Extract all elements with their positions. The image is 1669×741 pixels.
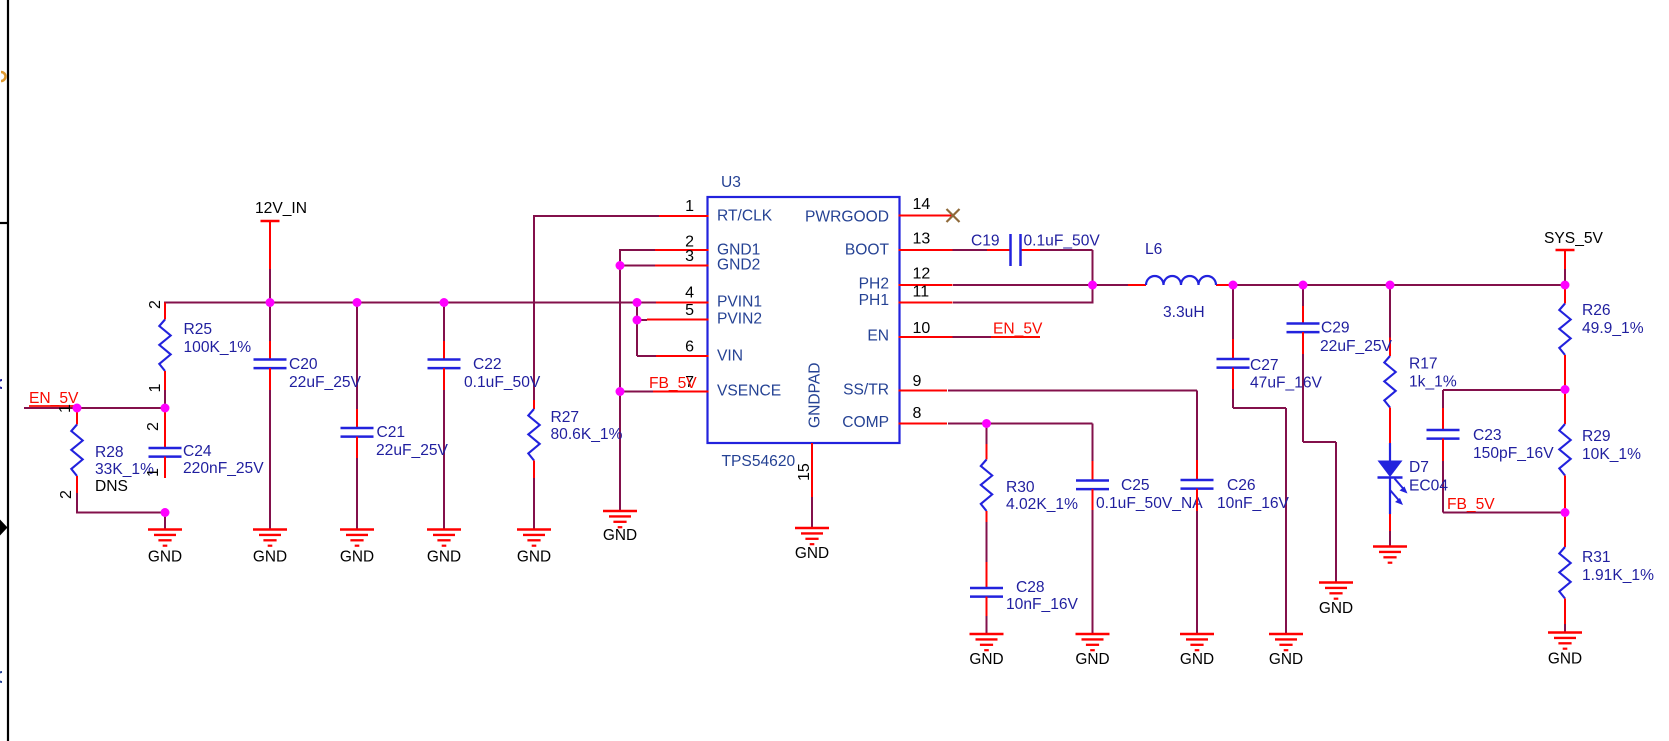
wire C22 branch [443,303,445,531]
svg-text:GND: GND [603,527,637,544]
ground symbol 4 at x=444 [427,530,461,566]
pin 6 VIN [656,339,743,365]
svg-text:47uF_16V: 47uF_16V [1250,375,1323,392]
wire C21 branch [356,303,358,531]
diode D7 EC04 LED [1378,443,1449,531]
pin 1 RT/CLK [659,198,773,225]
net label FB_5V at R31 [1447,496,1495,513]
svg-text:22uF_25V: 22uF_25V [1320,338,1393,355]
ground symbol 2 at x=270 [253,530,287,566]
capacitor C27 47uF_16V [1217,339,1323,392]
svg-text:C22: C22 [473,356,502,373]
capacitor C21 22uF_25V [341,409,449,459]
svg-text:5: 5 [685,302,694,319]
svg-text:0.1uF_50V: 0.1uF_50V [464,374,541,391]
svg-text:GND: GND [1269,651,1303,668]
svg-text:10nF_16V: 10nF_16V [1006,596,1079,613]
svg-text:GND: GND [253,549,287,566]
capacitor C25 0.1uF_50V_NA [1076,461,1203,512]
pin 3 GND2 [655,248,760,274]
wire PVIN1/PVIN2/VIN join [637,303,656,357]
svg-text:U3: U3 [721,174,741,191]
svg-text:C23: C23 [1473,427,1502,444]
wire C29 branch [1303,285,1336,583]
ground symbol 10 at x=1197 [1180,634,1214,668]
svg-text:D7: D7 [1409,459,1429,476]
junction node at (1092.5,285) [1088,281,1097,290]
inductor L6 3.3uH [1128,241,1232,321]
resistor R31 1.91K_1% [1559,513,1654,625]
svg-text:DNS: DNS [95,478,128,495]
svg-text:C26: C26 [1227,477,1256,494]
U3 reference label [721,174,741,191]
no-connect X on pin 14 [947,209,960,222]
wire SYS_5V stub [1564,268,1566,285]
pin 5 PVIN2 [647,302,762,328]
junction node at (620,265.5) [616,261,625,270]
net label EN_5V left [29,390,79,407]
pin 7 VSENCE [653,374,781,400]
junction node at (1233,285) [1229,281,1238,290]
svg-text:GND: GND [1075,651,1109,668]
svg-text:GND: GND [148,549,182,566]
svg-text:PH2: PH2 [859,276,889,293]
wire PH2 [953,284,1093,286]
wire C25 to GND [1092,510,1094,635]
junction node at (1565,389.5) [1561,385,1570,394]
svg-text:R28: R28 [95,444,124,461]
svg-text:GND: GND [795,545,829,562]
svg-text:0.1uF_50V: 0.1uF_50V [1024,233,1101,250]
svg-text:1: 1 [57,404,74,413]
svg-text:C24: C24 [183,443,212,460]
wire C23 bottom loop FB_5V [1443,461,1565,513]
svg-text:SS/TR: SS/TR [843,382,889,399]
svg-text:EN: EN [867,328,889,345]
ground symbol 1 at x=165 [148,530,182,566]
junction node at (444,302.5) [440,298,449,307]
junction node at (620,391.5) [616,387,625,396]
resistor R26 49.9_1% [1559,285,1643,385]
pin 14 PWRGOOD [805,196,953,226]
svg-text:2: 2 [145,422,162,431]
power SYS_5V [1544,230,1604,269]
junction node at (986.5,423.5) [982,419,991,428]
ground symbol 5 at x=534 [517,530,551,566]
wire R25 bottom to EN_5V node [164,389,166,409]
svg-text:1.91K_1%: 1.91K_1% [1582,567,1654,584]
R28 DNS label [95,478,128,495]
svg-text:R26: R26 [1582,302,1611,319]
svg-text:GND: GND [1180,651,1214,668]
pin 4 PVIN1 [656,285,762,311]
svg-text:80.6K_1%: 80.6K_1% [551,426,623,443]
svg-text:GND: GND [340,549,374,566]
capacitor C19 0.1uF_50V horizontal [971,233,1100,267]
net label EN_5V at pin 10 [991,321,1043,338]
svg-text:9: 9 [913,373,922,390]
svg-text:GNDPAD: GNDPAD [807,362,824,428]
R28 pin numbers [57,404,75,499]
wire 12V_IN rail [164,302,656,304]
svg-text:2: 2 [58,490,75,499]
junction node at (1390,285) [1386,281,1395,290]
svg-text:C20: C20 [289,356,318,373]
svg-text:PH1: PH1 [859,292,889,309]
junction node at (165,408) [161,404,170,413]
pin 2 GND1 [655,234,760,259]
wire R17 top stub [1389,285,1391,339]
resistor R25 100K_1% [159,303,251,391]
svg-text:GND: GND [427,549,461,566]
svg-text:12: 12 [913,266,931,283]
svg-text:4: 4 [685,285,694,302]
svg-text:TPS54620: TPS54620 [722,453,796,470]
svg-text:C21: C21 [377,424,406,441]
pin 8 COMP [842,405,947,431]
svg-text:13: 13 [913,231,931,248]
resistor R28 33K_1% DNS [71,408,154,493]
net label FB_5V at pin 7 [649,375,708,392]
wire PH node to L6 [1093,284,1129,286]
svg-text:R29: R29 [1582,428,1611,445]
svg-text:1: 1 [145,468,162,477]
svg-text:3: 3 [685,248,694,265]
wire EN net stub [952,336,1040,338]
svg-text:2: 2 [147,300,164,309]
capacitor C23 150pF_16V [1427,408,1555,462]
power 12V_IN [255,200,307,269]
svg-text:C19: C19 [971,233,1000,250]
op-amp U3 TPS54620 body [708,197,900,443]
svg-text:RT/CLK: RT/CLK [717,208,773,225]
svg-text:R25: R25 [184,321,213,338]
svg-text:8: 8 [913,405,922,422]
svg-text:3.3uH: 3.3uH [1163,304,1205,321]
svg-text:11: 11 [913,284,930,301]
svg-text:PWRGOOD: PWRGOOD [805,209,889,226]
ground symbol 14 at x=1565 [1548,633,1582,668]
wire C28 to GND [986,616,988,635]
wire R30 to C28 [986,522,988,563]
svg-text:L6: L6 [1145,241,1162,258]
svg-text:C28: C28 [1016,579,1045,596]
svg-text:220nF_25V: 220nF_25V [183,460,264,477]
wire SS/TR to C26 [948,391,1197,462]
svg-text:1: 1 [147,384,164,393]
wire BOOT to C19 [952,250,1093,303]
wire D7 to GND [1389,530,1391,547]
svg-text:R30: R30 [1006,479,1035,496]
ground symbol 6 at x=620 [603,511,637,544]
svg-text:GND: GND [969,651,1003,668]
U3 value TPS54620 [722,453,796,470]
svg-text:1k_1%: 1k_1% [1409,374,1457,391]
junction node at (77,408) [73,404,82,413]
wire C20 branch [269,268,271,530]
svg-text:10nF_16V: 10nF_16V [1217,495,1290,512]
wire GND1/GND2/VSENCE ground net [620,249,655,512]
svg-text:22uF_25V: 22uF_25V [289,374,362,391]
wire R26 bottom [1564,384,1566,390]
svg-text:4.02K_1%: 4.02K_1% [1006,496,1078,513]
svg-text:12V_IN: 12V_IN [255,200,307,217]
svg-text:1: 1 [685,198,694,215]
ground symbol 9 at x=1092.5 [1075,634,1109,668]
pin 12 PH2 [859,266,953,293]
junction node at (637,302.5) [633,298,642,307]
capacitor C29 22uF_25V [1287,306,1393,355]
svg-text:VSENCE: VSENCE [717,383,781,400]
svg-text:GND: GND [1548,651,1582,668]
wire COMP net [948,424,1093,463]
pin 13 BOOT [845,231,953,259]
wire EN_5V net [24,407,164,409]
ground symbol 7 at x=812 [795,528,829,562]
junction node at (357,302.5) [353,298,362,307]
svg-text:R27: R27 [551,409,580,426]
resistor R17 1k_1% [1384,338,1457,444]
svg-text:15: 15 [796,463,813,481]
junction node at (637,320) [633,316,642,325]
junction node at (270,302.5) [266,298,275,307]
svg-text:EC04: EC04 [1409,478,1448,495]
junction node at (1565,285) [1561,281,1570,290]
wire C27 branch [1233,285,1286,635]
wire R31 bottom [1564,624,1566,633]
pin 10 EN [867,320,952,345]
capacitor C26 10nF_16V [1181,460,1290,512]
wire GNDPAD stub [811,497,813,529]
ground symbol 3 at x=357 [340,530,374,566]
capacitor C20 22uF_25V [254,341,362,391]
svg-text:GND2: GND2 [717,257,760,274]
capacitor C24 220nF_25V [149,409,265,478]
svg-text:R31: R31 [1582,549,1611,566]
ground symbol 8 at x=986.5 [969,634,1003,668]
wire C26 to GND [1196,511,1198,635]
svg-text:VIN: VIN [717,348,743,365]
svg-text:COMP: COMP [842,414,889,431]
wire L6 to SYS_5V node [1232,284,1565,286]
pin 15 GNDPAD [796,362,824,497]
svg-text:49.9_1%: 49.9_1% [1582,320,1644,337]
svg-text:C27: C27 [1250,357,1279,374]
wire C23 top loop [1443,390,1565,408]
svg-text:FB_5V: FB_5V [649,375,697,392]
svg-text:C29: C29 [1321,320,1350,337]
svg-text:10K_1%: 10K_1% [1582,446,1641,463]
ground symbol 13 at x=1390 [1373,547,1407,563]
svg-text:PVIN1: PVIN1 [717,294,762,311]
pin 11 PH1 [859,284,953,309]
wire R28 bottom to C24 bottom [76,493,165,530]
svg-text:0.1uF_50V_NA: 0.1uF_50V_NA [1096,495,1203,512]
svg-text:EN_5V: EN_5V [993,321,1043,338]
svg-text:22uF_25V: 22uF_25V [376,442,449,459]
junction node at (165,512.5) [161,508,170,517]
wire PH1 [953,302,1094,304]
junction node at (1565,512.5) [1561,508,1570,517]
svg-text:10: 10 [913,320,931,337]
svg-text:C25: C25 [1121,477,1150,494]
svg-text:PVIN2: PVIN2 [717,311,762,328]
pin 9 SS/TR [843,373,947,399]
ground symbol 11 at x=1286 [1269,634,1303,668]
junction node at (1303,285) [1299,281,1308,290]
wire RT/CLK to R27 [534,215,659,530]
svg-text:GND: GND [1319,600,1353,617]
svg-text:SYS_5V: SYS_5V [1544,230,1604,247]
svg-text:6: 6 [685,339,694,356]
svg-text:R17: R17 [1409,356,1438,373]
svg-text:GND: GND [517,549,551,566]
wire R30 top stub [986,424,988,446]
svg-text:BOOT: BOOT [845,242,890,259]
svg-text:100K_1%: 100K_1% [184,339,252,356]
C24 pin numbers [145,422,162,477]
R25 pin numbers [147,300,164,393]
resistor R30 4.02K_1% [981,444,1078,522]
svg-text:150pF_16V: 150pF_16V [1473,445,1554,462]
resistor R29 10K_1% [1559,390,1641,510]
capacitor C22 0.1uF_50V [428,341,541,391]
capacitor C28 10nF_16V [970,562,1079,616]
svg-text:14: 14 [913,196,931,213]
ground symbol 12 at x=1336 [1319,583,1353,618]
resistor R27 80.6K_1% [528,400,622,478]
svg-text:FB_5V: FB_5V [1447,496,1495,513]
